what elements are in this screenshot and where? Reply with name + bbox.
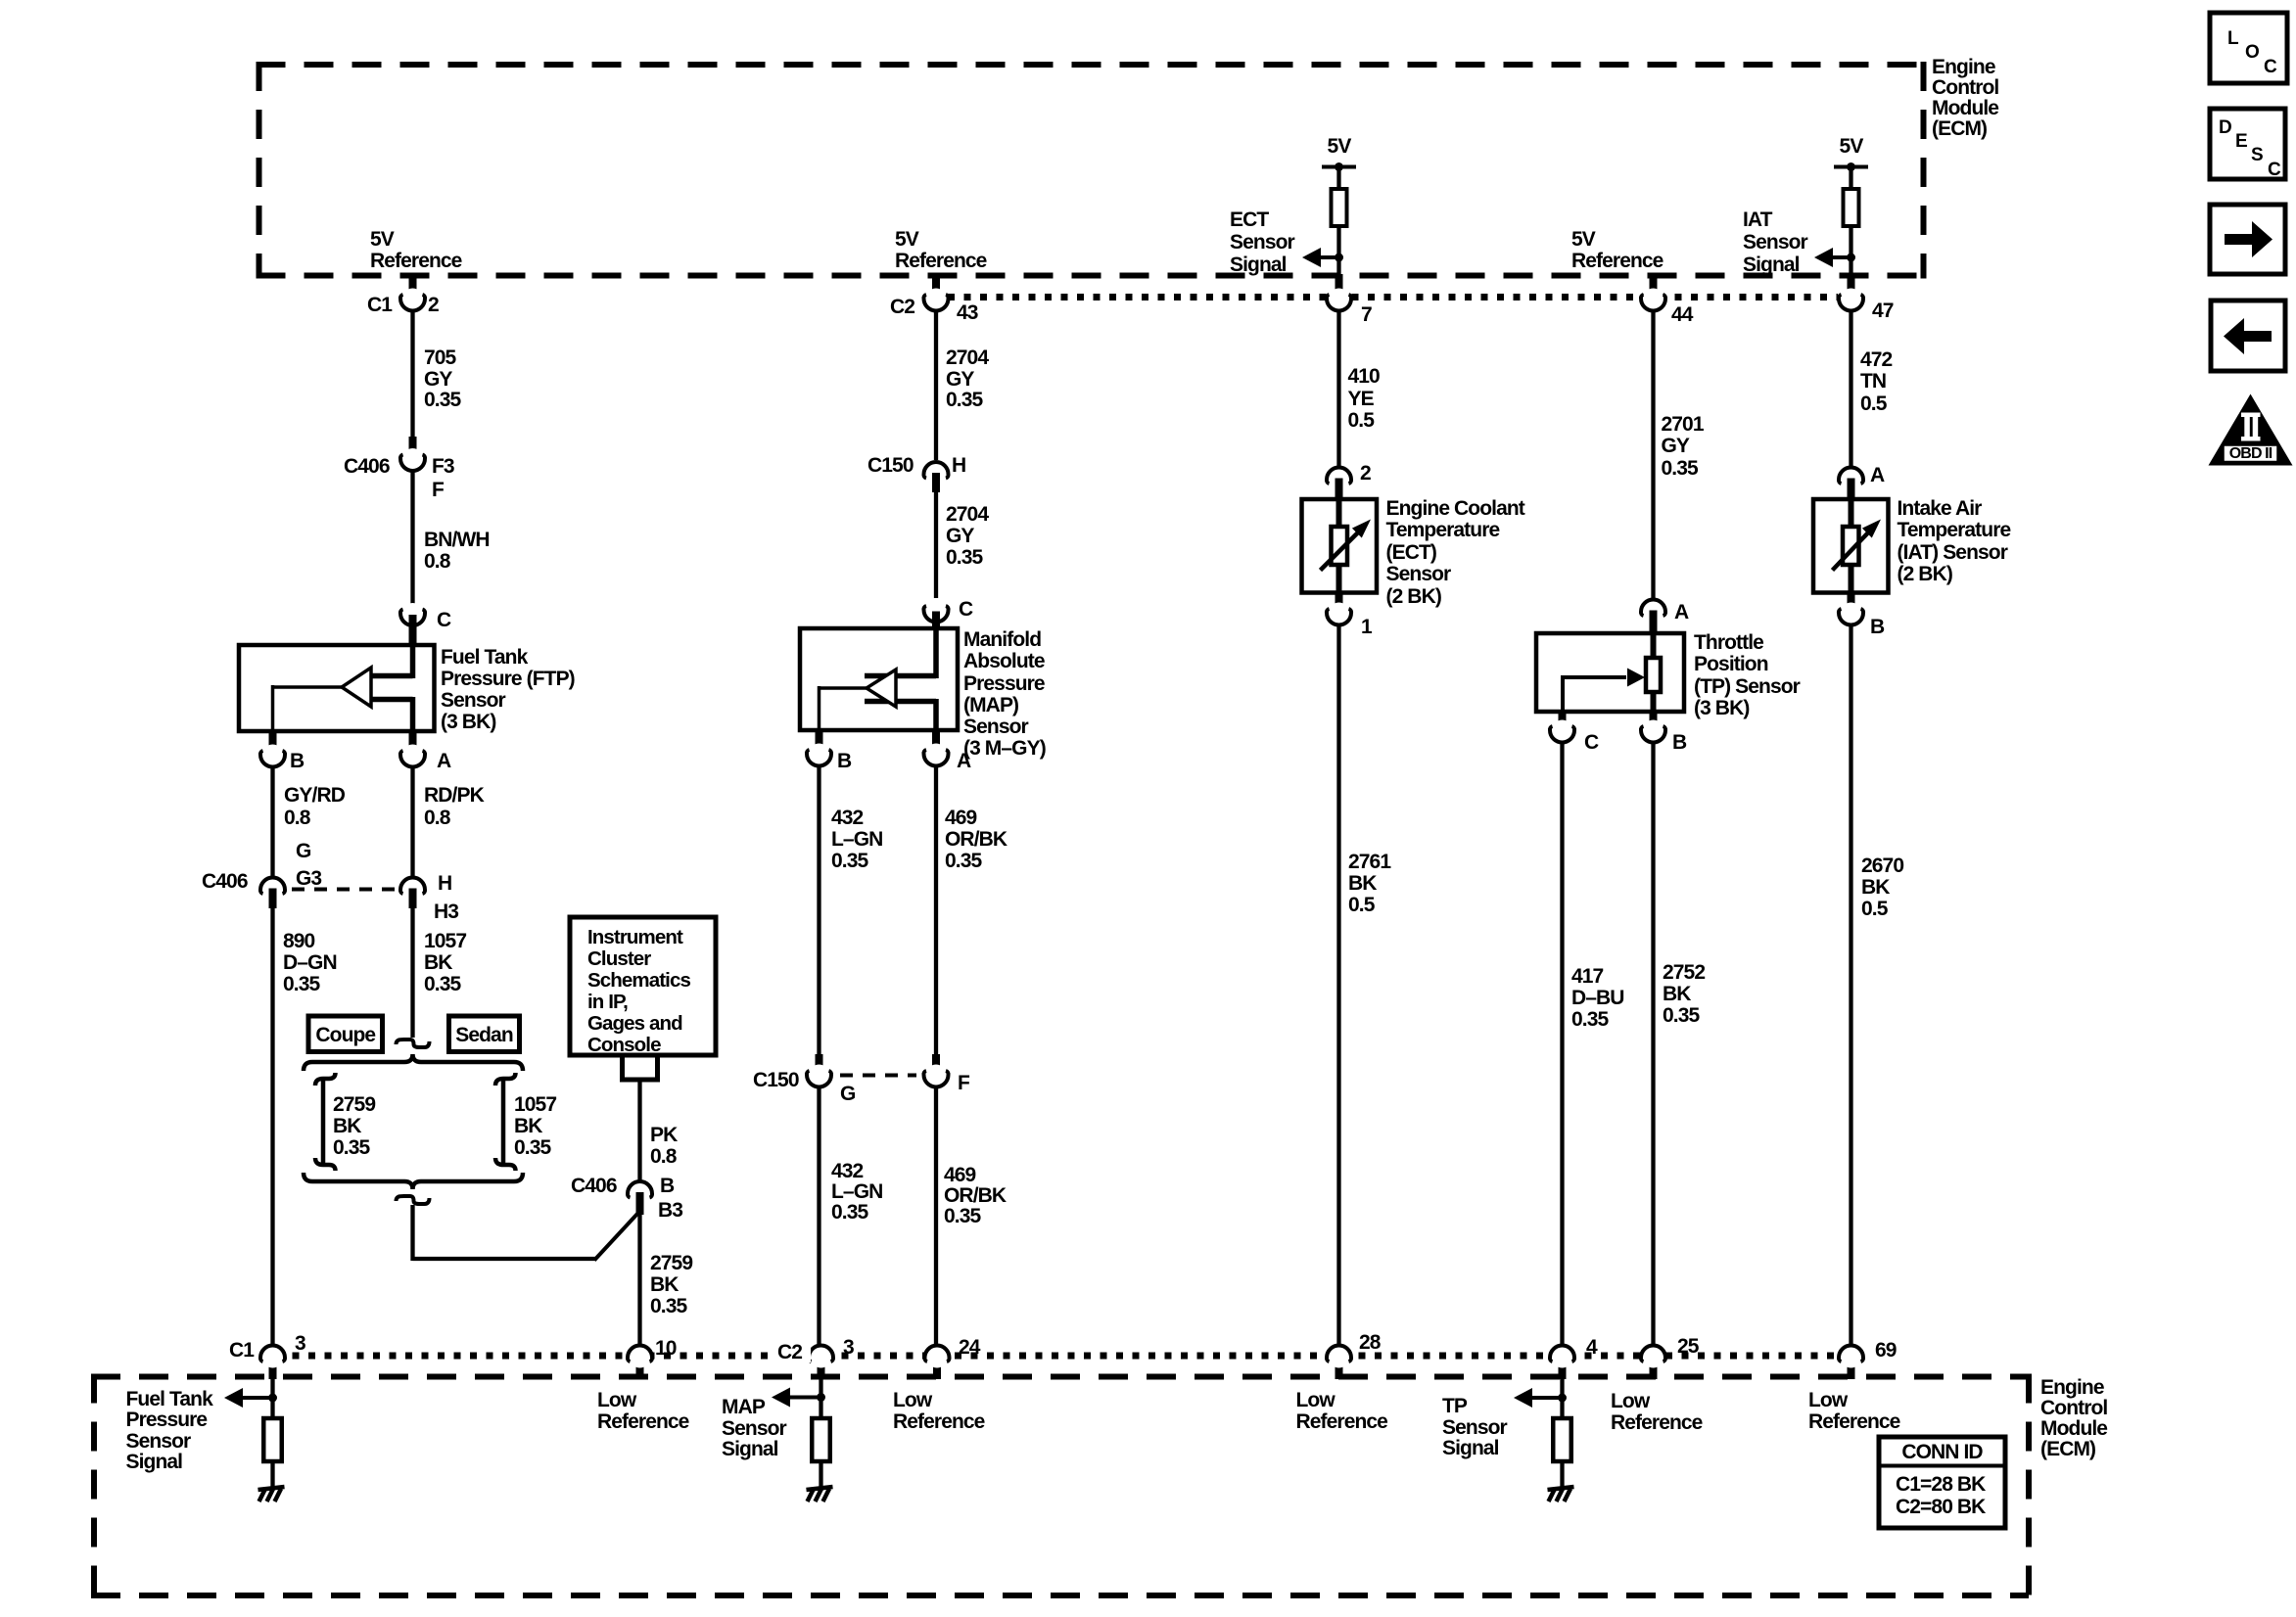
bracket right (1057 option) [495, 1073, 516, 1086]
svg-text:2701: 2701 [1662, 413, 1705, 436]
svg-text:Coupe: Coupe [315, 1024, 375, 1046]
wire resistor to ground (TP) [1560, 1461, 1564, 1487]
connector C2 pin 3 (bottom) [818, 1355, 825, 1379]
wire to junction (FTP low ref) [410, 1205, 414, 1261]
svg-text:in IP,: in IP, [587, 991, 628, 1013]
svg-text:Sensor: Sensor [1442, 1416, 1508, 1439]
svg-text:25: 25 [1677, 1335, 1700, 1358]
svg-text:705: 705 [424, 346, 457, 369]
svg-text:0.8: 0.8 [650, 1145, 678, 1168]
svg-text:0.35: 0.35 [944, 1205, 981, 1227]
brace top (coupe/sedan options) [304, 1054, 523, 1071]
svg-text:G: G [840, 1083, 856, 1105]
wire 890 D-GN [270, 906, 274, 1345]
5V terminal bar (IAT) [1834, 165, 1868, 169]
connector TP pin A [1643, 601, 1664, 623]
svg-text:G: G [296, 840, 311, 862]
svg-text:F3: F3 [432, 455, 454, 478]
svg-text:G3: G3 [296, 867, 321, 890]
Coupe box [308, 1016, 383, 1052]
FTP sensor box [239, 645, 435, 731]
svg-text:D–GN: D–GN [283, 951, 337, 974]
svg-text:TP: TP [1442, 1395, 1468, 1417]
svg-text:C: C [959, 598, 973, 621]
svg-text:L–GN: L–GN [831, 828, 882, 851]
svg-text:(ECM): (ECM) [2040, 1438, 2095, 1460]
svg-text:0.35: 0.35 [424, 973, 461, 995]
ground (MAP signal) [807, 1487, 833, 1490]
ECT sensor box [1302, 499, 1378, 593]
connector ECT pin 2 [1329, 469, 1350, 490]
svg-text:0.35: 0.35 [1663, 1004, 1700, 1027]
svg-text:(3 BK): (3 BK) [441, 711, 495, 733]
svg-text:0.35: 0.35 [945, 850, 982, 872]
connector IAT pin A [1841, 469, 1862, 490]
connector ECT pin 1 [1335, 592, 1343, 613]
svg-text:Signal: Signal [1743, 254, 1800, 276]
svg-text:D: D [2219, 117, 2231, 138]
ECT sensor signal arrow [1319, 255, 1339, 259]
svg-text:GY: GY [946, 525, 974, 547]
svg-text:Position: Position [1694, 653, 1768, 675]
svg-text:C: C [437, 609, 451, 631]
svg-text:BK: BK [1663, 983, 1691, 1005]
svg-text:F: F [432, 479, 445, 501]
svg-text:L: L [2227, 28, 2239, 49]
connector pin 69 (bottom) [1848, 1355, 1855, 1379]
svg-text:Reference: Reference [1808, 1410, 1900, 1433]
svg-text:0.8: 0.8 [424, 807, 451, 829]
svg-text:Module: Module [1932, 97, 1998, 119]
wire 1057 BK upper [410, 906, 414, 1038]
wire 5V to resistor (IAT) [1849, 167, 1852, 191]
svg-text:0.35: 0.35 [946, 546, 983, 569]
svg-text:L–GN: L–GN [831, 1180, 882, 1203]
wire 410 YE [1336, 309, 1340, 467]
resistor ECT pull-up [1332, 189, 1347, 226]
LOC icon box [2210, 13, 2287, 83]
svg-text:Sensor: Sensor [441, 689, 506, 712]
CONN ID table [1879, 1437, 2005, 1528]
C406 coupler dashes (G3-H) [292, 888, 398, 892]
svg-text:4: 4 [1586, 1336, 1598, 1359]
svg-text:1057: 1057 [424, 930, 466, 952]
svg-text:C406: C406 [571, 1175, 617, 1197]
svg-text:1: 1 [1361, 616, 1373, 638]
C150 coupler dashes (G-F) [840, 1074, 916, 1078]
svg-text:Fuel Tank: Fuel Tank [126, 1388, 214, 1410]
svg-text:Cluster: Cluster [587, 947, 651, 970]
svg-text:5V: 5V [1328, 135, 1352, 158]
wire BN/WH [410, 470, 414, 615]
svg-text:0.35: 0.35 [831, 850, 868, 872]
svg-text:0.35: 0.35 [1662, 457, 1699, 480]
svg-text:(2 BK): (2 BK) [1386, 585, 1441, 608]
svg-text:Temperature: Temperature [1386, 519, 1500, 541]
svg-text:43: 43 [957, 301, 978, 324]
wire 2701 GY [1651, 309, 1655, 600]
svg-text:CONN ID: CONN ID [1901, 1441, 1983, 1463]
svg-text:IAT: IAT [1743, 208, 1773, 231]
TP signal arrow [1530, 1396, 1563, 1400]
svg-text:Pressure (FTP): Pressure (FTP) [441, 668, 575, 690]
connector FTP pin B [269, 729, 277, 755]
wire break (below brace) [397, 1196, 430, 1204]
svg-text:BK: BK [424, 951, 452, 974]
svg-text:C2: C2 [890, 296, 914, 318]
svg-text:A: A [437, 750, 451, 772]
svg-text:Temperature: Temperature [1898, 519, 2011, 541]
svg-text:C: C [2264, 57, 2277, 77]
connector pin 10 (bottom) [636, 1355, 644, 1379]
svg-text:Low: Low [1611, 1390, 1651, 1412]
wire 469 OR/BK lower [934, 1086, 938, 1345]
top dotted bus (ECM pin row) [948, 294, 1838, 300]
svg-text:(IAT) Sensor: (IAT) Sensor [1898, 541, 2008, 564]
svg-text:Module: Module [2040, 1417, 2107, 1440]
svg-text:Control: Control [1932, 76, 1998, 99]
svg-text:0.35: 0.35 [424, 389, 461, 411]
svg-text:69: 69 [1875, 1339, 1897, 1362]
svg-text:B: B [1870, 616, 1885, 638]
svg-text:MAP: MAP [722, 1396, 766, 1418]
svg-text:Reference: Reference [895, 250, 987, 272]
connector C150 pin F [932, 1054, 940, 1075]
svg-text:Console: Console [587, 1034, 661, 1056]
wire resistor to ground (FTP) [270, 1461, 274, 1487]
svg-text:0.35: 0.35 [283, 973, 320, 995]
resistor FTP signal [263, 1418, 282, 1461]
svg-text:417: 417 [1571, 965, 1604, 988]
svg-text:(2 BK): (2 BK) [1898, 563, 1952, 585]
svg-text:B: B [660, 1175, 675, 1197]
svg-text:(MAP): (MAP) [963, 694, 1018, 716]
svg-text:(ECM): (ECM) [1932, 117, 1987, 140]
svg-text:3: 3 [843, 1336, 854, 1359]
connector pin 44 (TP 5V ref) [1650, 274, 1658, 301]
svg-text:B3: B3 [658, 1199, 682, 1222]
svg-text:A: A [1870, 464, 1885, 486]
svg-text:Gages and: Gages and [587, 1012, 682, 1035]
svg-text:2759: 2759 [650, 1252, 692, 1274]
connector TP pin B [1650, 710, 1658, 730]
svg-text:OBD II: OBD II [2229, 445, 2273, 462]
svg-text:432: 432 [831, 1160, 864, 1182]
svg-text:GY/RD: GY/RD [284, 784, 346, 807]
svg-text:ECT: ECT [1230, 208, 1269, 231]
connector C2 pin 43 [932, 274, 940, 301]
connector TP pin C [1559, 710, 1567, 730]
connector FTP pin C [402, 603, 424, 624]
connector pin 24 (bottom) [933, 1355, 941, 1379]
wire 2761 BK [1336, 625, 1340, 1345]
svg-text:Sedan: Sedan [455, 1024, 513, 1046]
svg-text:2: 2 [428, 294, 439, 316]
svg-text:5V: 5V [1571, 228, 1596, 251]
svg-text:472: 472 [1860, 348, 1893, 371]
wire pin3 to resistor (MAP) [819, 1379, 822, 1419]
TP sensor box [1536, 633, 1684, 712]
wire 2752 BK [1651, 742, 1655, 1345]
connector pin 47 (IAT) [1848, 274, 1855, 301]
wire 2670 BK [1849, 625, 1852, 1345]
5V terminal bar (ECT) [1322, 165, 1356, 169]
svg-text:H: H [952, 454, 965, 477]
svg-text:0.35: 0.35 [514, 1136, 551, 1159]
wire 472 TN [1849, 309, 1852, 467]
connector IAT pin B [1848, 592, 1855, 613]
svg-text:O: O [2245, 42, 2259, 63]
connector pin 28 (bottom) [1335, 1355, 1343, 1379]
svg-text:Signal: Signal [1442, 1437, 1499, 1459]
svg-text:469: 469 [944, 1164, 976, 1186]
svg-text:(3 M–GY): (3 M–GY) [963, 737, 1046, 760]
svg-text:Engine Coolant: Engine Coolant [1386, 497, 1525, 520]
svg-text:B: B [837, 750, 852, 772]
svg-text:Instrument: Instrument [587, 926, 683, 948]
connector FTP pin A [409, 729, 417, 755]
svg-text:BK: BK [1348, 872, 1377, 895]
svg-text:(3 BK): (3 BK) [1694, 697, 1749, 719]
connector MAP pin A [932, 728, 940, 754]
svg-text:Manifold: Manifold [963, 628, 1041, 651]
wire break (H wire) [397, 1039, 430, 1047]
svg-text:C1: C1 [229, 1339, 255, 1362]
connector C406 pin G3 [262, 879, 284, 901]
svg-text:Sensor: Sensor [963, 716, 1029, 738]
svg-text:A: A [1674, 601, 1689, 624]
svg-text:Reference: Reference [597, 1410, 689, 1433]
svg-text:2761: 2761 [1348, 851, 1391, 873]
svg-text:Pressure: Pressure [126, 1409, 208, 1431]
svg-text:1057: 1057 [514, 1093, 556, 1116]
connector C406 pin F3 [409, 437, 417, 458]
svg-text:TN: TN [1860, 370, 1886, 393]
ground (FTP signal) [258, 1487, 285, 1490]
svg-text:E: E [2235, 131, 2247, 152]
svg-text:H: H [438, 872, 451, 895]
svg-text:C406: C406 [202, 870, 248, 893]
Instrument Cluster box [570, 917, 716, 1055]
connector C406 pin B [630, 1182, 651, 1204]
svg-text:2759: 2759 [333, 1093, 375, 1116]
svg-text:0.35: 0.35 [831, 1201, 868, 1224]
svg-text:Reference: Reference [1611, 1411, 1703, 1434]
instrument cluster continuation plug [623, 1055, 658, 1080]
svg-text:7: 7 [1361, 303, 1372, 326]
svg-text:47: 47 [1872, 300, 1894, 322]
wire GY/RD [270, 766, 274, 877]
FTP sensor internal symbol [410, 645, 416, 678]
wire pin3 to resistor [270, 1379, 274, 1419]
svg-text:0.8: 0.8 [424, 550, 451, 573]
ECM module dashed box (top) [257, 62, 1927, 68]
svg-text:C150: C150 [867, 454, 914, 477]
wire resistor to ground (MAP) [819, 1461, 822, 1487]
svg-text:Reference: Reference [1571, 250, 1663, 272]
TP potentiometer symbol [1651, 633, 1657, 660]
svg-text:Sensor: Sensor [1386, 563, 1452, 585]
ECT thermistor symbol [1336, 499, 1342, 529]
svg-text:432: 432 [831, 807, 864, 829]
svg-text:C: C [1584, 731, 1599, 754]
svg-text:Throttle: Throttle [1694, 631, 1763, 654]
svg-text:24: 24 [959, 1336, 981, 1359]
ground (TP signal) [1548, 1487, 1574, 1490]
svg-text:Sensor: Sensor [126, 1430, 192, 1453]
IAT sensor signal arrow [1831, 255, 1851, 259]
svg-text:2752: 2752 [1663, 961, 1705, 984]
svg-text:Absolute: Absolute [963, 650, 1045, 672]
svg-text:Low: Low [893, 1389, 933, 1411]
connector pin 7 (ECT) [1335, 274, 1343, 301]
wire resistor to pin 7 (ECT) [1336, 226, 1340, 278]
svg-text:Fuel Tank: Fuel Tank [441, 646, 529, 669]
svg-text:BK: BK [333, 1115, 361, 1137]
svg-text:C1=28 BK: C1=28 BK [1896, 1473, 1986, 1496]
svg-text:0.5: 0.5 [1348, 894, 1376, 916]
svg-text:Engine: Engine [1932, 56, 1995, 78]
wire 432 L-GN lower [817, 1086, 820, 1345]
svg-text:0.35: 0.35 [650, 1295, 687, 1317]
svg-text:OR/BK: OR/BK [945, 828, 1007, 851]
wire 2704 GY upper [934, 309, 938, 460]
svg-text:OR/BK: OR/BK [944, 1184, 1007, 1207]
svg-text:0.5: 0.5 [1348, 409, 1376, 432]
FTP signal arrow [241, 1396, 273, 1400]
svg-text:Reference: Reference [370, 250, 462, 272]
wire 469 OR/BK upper [934, 765, 938, 1056]
wire RD/PK [410, 766, 414, 877]
svg-text:5V: 5V [895, 228, 919, 251]
svg-text:C150: C150 [753, 1069, 799, 1091]
MAP sensor box [800, 628, 958, 730]
svg-text:469: 469 [945, 807, 977, 829]
bottom dotted bus (ECM pin row) [276, 1353, 1849, 1360]
wire 705 GY [410, 309, 414, 438]
svg-text:Signal: Signal [126, 1451, 183, 1473]
svg-text:10: 10 [655, 1337, 677, 1360]
svg-text:B: B [290, 750, 305, 772]
brace bottom (coupe/sedan options) [304, 1173, 523, 1189]
svg-text:Reference: Reference [893, 1410, 985, 1433]
left arrow icon box [2211, 300, 2285, 371]
svg-text:0.35: 0.35 [1571, 1008, 1609, 1031]
connector C406 pin H [402, 879, 424, 901]
connector C1 pin 2 [409, 274, 417, 301]
svg-text:2: 2 [1360, 462, 1371, 485]
wire 432 L-GN upper [817, 765, 820, 1056]
svg-text:2704: 2704 [946, 503, 989, 526]
svg-text:(TP) Sensor: (TP) Sensor [1694, 675, 1801, 698]
svg-text:44: 44 [1671, 303, 1694, 326]
svg-text:B: B [1672, 731, 1687, 754]
svg-text:A: A [957, 750, 971, 772]
wire resistor to pin 47 (IAT) [1849, 226, 1852, 278]
right arrow icon box [2210, 205, 2285, 274]
svg-text:Low: Low [1808, 1389, 1849, 1411]
svg-text:Sensor: Sensor [1743, 231, 1808, 254]
svg-text:Signal: Signal [722, 1438, 778, 1460]
resistor MAP signal [812, 1418, 830, 1461]
connector pin 25 (bottom) [1650, 1355, 1658, 1379]
connector MAP pin C [925, 600, 947, 622]
svg-text:YE: YE [1348, 388, 1375, 410]
svg-text:2670: 2670 [1861, 855, 1903, 877]
svg-text:0.5: 0.5 [1861, 898, 1889, 920]
wire 5V to resistor (ECT) [1336, 167, 1340, 191]
svg-text:0.5: 0.5 [1860, 393, 1888, 415]
wire 2704 GY lower [934, 490, 938, 598]
svg-text:BK: BK [650, 1273, 679, 1296]
svg-text:RD/PK: RD/PK [424, 784, 485, 807]
svg-text:Intake Air: Intake Air [1898, 497, 1983, 520]
IAT sensor box [1813, 499, 1889, 593]
bracket left (2759 option) [315, 1073, 336, 1086]
svg-text:C: C [2268, 160, 2281, 180]
svg-text:Sensor: Sensor [1230, 231, 1295, 254]
svg-text:Reference: Reference [1296, 1410, 1388, 1433]
svg-text:GY: GY [424, 368, 452, 391]
svg-text:5V: 5V [1840, 135, 1864, 158]
connector MAP pin B [816, 728, 823, 754]
svg-text:BN/WH: BN/WH [424, 529, 490, 551]
svg-text:0.35: 0.35 [333, 1136, 370, 1159]
svg-text:28: 28 [1359, 1331, 1382, 1354]
svg-text:GY: GY [1662, 435, 1690, 457]
wire pin4 to resistor (TP) [1560, 1379, 1564, 1419]
resistor IAT pull-up [1844, 189, 1859, 226]
DESC icon box [2210, 109, 2285, 179]
svg-text:Engine: Engine [2040, 1376, 2104, 1399]
svg-text:Sensor: Sensor [722, 1417, 787, 1440]
svg-text:5V: 5V [370, 228, 395, 251]
svg-text:2704: 2704 [946, 346, 989, 369]
Sedan box [449, 1016, 520, 1052]
svg-text:GY: GY [946, 368, 974, 391]
svg-text:H3: H3 [434, 901, 458, 923]
wire PK [637, 1082, 641, 1181]
svg-text:C2=80 BK: C2=80 BK [1896, 1496, 1986, 1518]
wire 417 D-BU [1560, 742, 1564, 1345]
MAP signal arrow [788, 1396, 821, 1400]
svg-text:PK: PK [650, 1124, 678, 1146]
wire 2759 BK (to pin 10) [637, 1213, 641, 1345]
svg-text:410: 410 [1348, 365, 1381, 388]
svg-text:(ECT): (ECT) [1386, 541, 1437, 564]
IAT thermistor symbol [1849, 499, 1854, 529]
connector pin 4 (bottom) [1559, 1355, 1567, 1379]
svg-text:0.35: 0.35 [946, 389, 983, 411]
MAP sensor internal symbol [933, 628, 939, 678]
svg-text:0.8: 0.8 [284, 807, 311, 829]
svg-text:Pressure: Pressure [963, 672, 1045, 695]
OBD II triangle icon [2209, 394, 2293, 466]
connector C150 pin H [925, 463, 947, 485]
ECM module dashed box (bottom) [91, 1374, 2029, 1380]
svg-text:BK: BK [1861, 876, 1890, 899]
svg-text:Signal: Signal [1230, 254, 1287, 276]
resistor TP signal [1553, 1418, 1571, 1461]
svg-text:C1: C1 [367, 294, 393, 316]
svg-text:F: F [958, 1072, 970, 1094]
label C2 (bottom) [772, 1341, 811, 1363]
svg-text:Schematics: Schematics [587, 969, 690, 992]
svg-text:Low: Low [597, 1389, 637, 1411]
svg-text:D–BU: D–BU [1571, 987, 1624, 1009]
connector C150 pin G [816, 1054, 823, 1075]
connector C1 pin 3 (bottom) [269, 1355, 277, 1379]
